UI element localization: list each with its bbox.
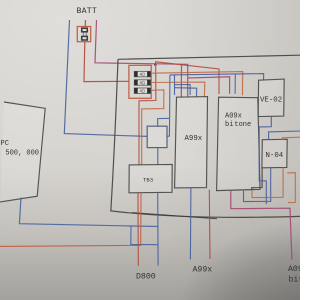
svg-text:A09x: A09x — [225, 113, 242, 121]
junction node on magenta run — [154, 63, 157, 66]
line driver small box (blue) — [147, 126, 167, 147]
svg-text:, 500, 000: , 500, 000 — [0, 150, 39, 158]
wire blue run to VE-02 — [170, 74, 264, 81]
wire blue VE-02 down left of N-04 — [259, 116, 271, 204]
head unit box PC — [0, 102, 45, 202]
fuse 40A middle — [134, 80, 150, 85]
wire orange junction branch down — [155, 65, 157, 83]
wire red A99x output to label — [208, 190, 211, 259]
wire blue A99x output to label — [189, 188, 192, 259]
wire orange right edge to N-04 — [282, 137, 300, 140]
amp box A09x bitone — [217, 97, 260, 190]
wire blue N-04 to A09x — [244, 168, 271, 202]
wire blue T03 to D800 — [157, 193, 159, 266]
wire blue to A99x top — [175, 88, 197, 98]
wire magenta A09x to corner label — [231, 191, 292, 260]
wire orange T03 long left run — [0, 193, 141, 247]
wire blue bridge on A99x top — [175, 75, 191, 95]
wire blue small box to T03 — [157, 148, 159, 165]
wire black short double segment at enclosure bottom — [132, 213, 217, 219]
amp box A99x — [175, 97, 208, 188]
wire blue PC to junction run — [19, 198, 157, 227]
wire orange fuse output to A99x right — [151, 82, 205, 97]
svg-text:VE-02: VE-02 — [260, 97, 282, 105]
wire black N-04 to A09x — [252, 168, 262, 190]
svg-text:BATT: BATT — [77, 7, 97, 16]
fuse holder F1 (red box at BATT) — [77, 27, 90, 42]
wire orange fuse output to T03 — [142, 90, 164, 165]
wire magenta branch to A99x — [180, 64, 182, 97]
svg-text:N-04: N-04 — [266, 152, 284, 160]
main unit enclosure (black outline) — [111, 55, 300, 217]
wire orange fuse output to A09x — [151, 72, 243, 96]
svg-text:A99x: A99x — [185, 135, 203, 143]
svg-text:bitone: bitone — [225, 121, 251, 129]
wire magenta battery run to A09x — [95, 20, 230, 97]
svg-text:D800: D800 — [136, 273, 156, 282]
wire orange N-04 to A09x — [252, 168, 283, 198]
fuse 40A top — [134, 71, 150, 76]
wire blue drop branch — [131, 226, 158, 245]
fuse block (red box with three fuses) — [129, 65, 151, 98]
svg-text:TB3: TB3 — [143, 177, 153, 184]
wire red battery to fuse F1 — [84, 20, 129, 82]
fuse element inside F1 — [82, 28, 88, 32]
wire blue branch to A09x — [234, 74, 236, 93]
wire blue battery to line-driver box — [64, 20, 147, 136]
wire red fuse-block riser to T03 and A09x run — [139, 62, 219, 165]
svg-text:bitone: bitone — [289, 275, 301, 285]
box VE-02 — [258, 79, 284, 117]
svg-text:PC: PC — [1, 140, 9, 148]
wire blue riser and jog to small box — [158, 75, 170, 136]
box TB3 — [129, 164, 172, 192]
svg-text:A09x: A09x — [288, 265, 300, 274]
wire orange N-04 right side — [287, 173, 295, 203]
fuse 40A bottom — [134, 88, 150, 93]
wire blue right edge to N-04 — [269, 131, 300, 140]
wire red T03 to D800 — [137, 193, 139, 266]
svg-text:A99x: A99x — [193, 266, 213, 275]
box N-04 — [262, 139, 287, 168]
